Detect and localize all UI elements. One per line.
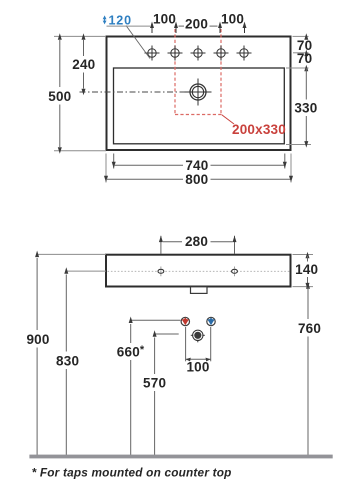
extension lines right (top view) <box>286 36 311 144</box>
tap hole 5 <box>237 46 252 61</box>
dim arrow at hole2 <box>174 22 178 34</box>
basin outer rim (top view 800x500) <box>107 37 291 151</box>
svg-text:100: 100 <box>186 359 209 374</box>
overflow dotted line <box>108 270 290 272</box>
dim 100 (holes 1-2) <box>153 12 176 27</box>
svg-text:830: 830 <box>56 353 79 368</box>
dim 800 (overall width) <box>104 172 293 187</box>
dim 280 (fixing holes) <box>159 234 237 254</box>
dim 200 (holes 2-4) <box>179 17 218 32</box>
svg-text:240: 240 <box>72 57 95 72</box>
dim arrow at hole5 <box>243 22 247 34</box>
red dashed cutout bottom 200x330 <box>175 114 221 116</box>
footnote <box>32 466 232 480</box>
drain (top view) <box>185 79 212 106</box>
svg-text:200: 200 <box>185 17 208 32</box>
svg-text:760: 760 <box>298 321 321 336</box>
svg-text:* For taps mounted on counter: * For taps mounted on counter top <box>32 466 232 480</box>
dim 830 (holes height) <box>56 267 106 455</box>
dim 100 (holes 4-5) <box>221 12 244 27</box>
svg-text:100: 100 <box>153 12 176 27</box>
top dimension line segment left <box>107 25 151 27</box>
dim 570 (drain height) <box>143 330 179 455</box>
dim 70 (holes to bowl) <box>297 50 312 67</box>
extension lines below (740 / 800) <box>106 154 291 183</box>
red leader line <box>221 115 234 125</box>
basin body (front view) <box>106 255 291 287</box>
label 200x330 <box>232 122 286 137</box>
tap hole 3 <box>191 46 206 61</box>
svg-text:280: 280 <box>185 234 208 249</box>
red dashed cutout line right (through hole 4) <box>220 29 222 115</box>
svg-text:570: 570 <box>143 375 166 390</box>
red dashed cutout line left (through hole 2) <box>174 29 176 115</box>
cold water connection (blue) <box>207 317 215 325</box>
extension line bottom left <box>54 150 106 152</box>
hot water connection (red) <box>181 317 189 325</box>
label 120 with double arrow <box>103 14 132 28</box>
svg-text:70: 70 <box>297 51 312 66</box>
dim 500 (left) <box>48 33 71 154</box>
dim 330 (bowl depth) <box>294 65 317 148</box>
fixing hole right <box>232 267 238 277</box>
fixing hole left <box>158 267 164 277</box>
waste outlet (front view) <box>191 330 205 342</box>
basin inner bowl (top view) <box>114 68 285 144</box>
dim 900 (rim height) <box>26 251 106 455</box>
svg-text:200x330: 200x330 <box>232 122 286 137</box>
svg-text:330: 330 <box>294 101 317 116</box>
tap hole 1 <box>145 46 160 61</box>
floor line <box>29 455 332 459</box>
svg-text:900: 900 <box>26 332 49 347</box>
extension lines right (front view) <box>293 255 314 287</box>
dim arrow at hole1 <box>150 22 154 34</box>
tap hole 2 <box>168 46 183 61</box>
dim 240 (left) <box>72 33 95 95</box>
svg-text:740: 740 <box>185 158 208 173</box>
dim 140 (basin height) <box>295 252 318 290</box>
svg-text:140: 140 <box>295 262 318 277</box>
centre dash-dot line <box>80 91 214 93</box>
dim 760 (basin bottom height) <box>298 282 321 455</box>
tap hole 4 <box>214 46 229 61</box>
dim 100 (tap connections) <box>186 327 211 374</box>
dim 660* (tap connection height) <box>117 317 181 456</box>
svg-text:800: 800 <box>185 172 208 187</box>
dim 70 (rim to holes) <box>297 33 312 53</box>
dim 740 (bowl width) <box>112 158 287 173</box>
svg-text:120: 120 <box>109 14 132 28</box>
extension line top left <box>54 35 106 37</box>
svg-text:100: 100 <box>221 12 244 27</box>
dim arrow at hole4 <box>218 22 222 34</box>
leader from 120 to tap hole 1 <box>126 26 150 59</box>
drain tab under basin <box>191 287 208 294</box>
svg-text:500: 500 <box>48 89 71 104</box>
